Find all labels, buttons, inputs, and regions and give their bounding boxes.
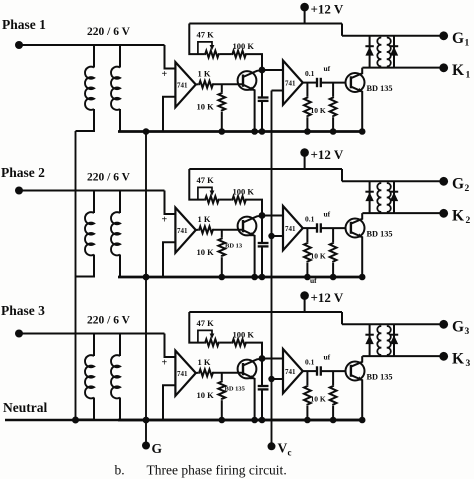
svg-text:Phase 3: Phase 3 (1, 303, 45, 318)
svg-text:V: V (278, 441, 288, 456)
svg-text:G: G (452, 319, 464, 336)
svg-text:b.: b. (115, 463, 125, 478)
svg-text:K: K (452, 62, 464, 79)
svg-text:Three phase firing circuit.: Three phase firing circuit. (147, 463, 287, 478)
svg-text:1: 1 (465, 39, 470, 49)
svg-text:Phase 1: Phase 1 (2, 17, 46, 32)
svg-text:BD 13: BD 13 (225, 243, 243, 250)
svg-text:K: K (452, 351, 464, 368)
svg-text:2: 2 (465, 184, 470, 194)
svg-text:uf: uf (310, 276, 317, 285)
svg-text:G: G (452, 30, 464, 47)
svg-text:Neutral: Neutral (3, 400, 47, 415)
svg-text:G: G (152, 441, 163, 456)
svg-text:Phase 2: Phase 2 (1, 165, 45, 180)
svg-text:BD 135: BD 135 (225, 386, 246, 393)
svg-text:3: 3 (466, 359, 471, 369)
svg-text:3: 3 (465, 327, 470, 337)
svg-text:G: G (452, 176, 464, 193)
svg-text:c: c (288, 448, 292, 458)
svg-text:1: 1 (466, 71, 471, 81)
svg-text:2: 2 (466, 216, 471, 226)
svg-text:K: K (452, 208, 464, 225)
